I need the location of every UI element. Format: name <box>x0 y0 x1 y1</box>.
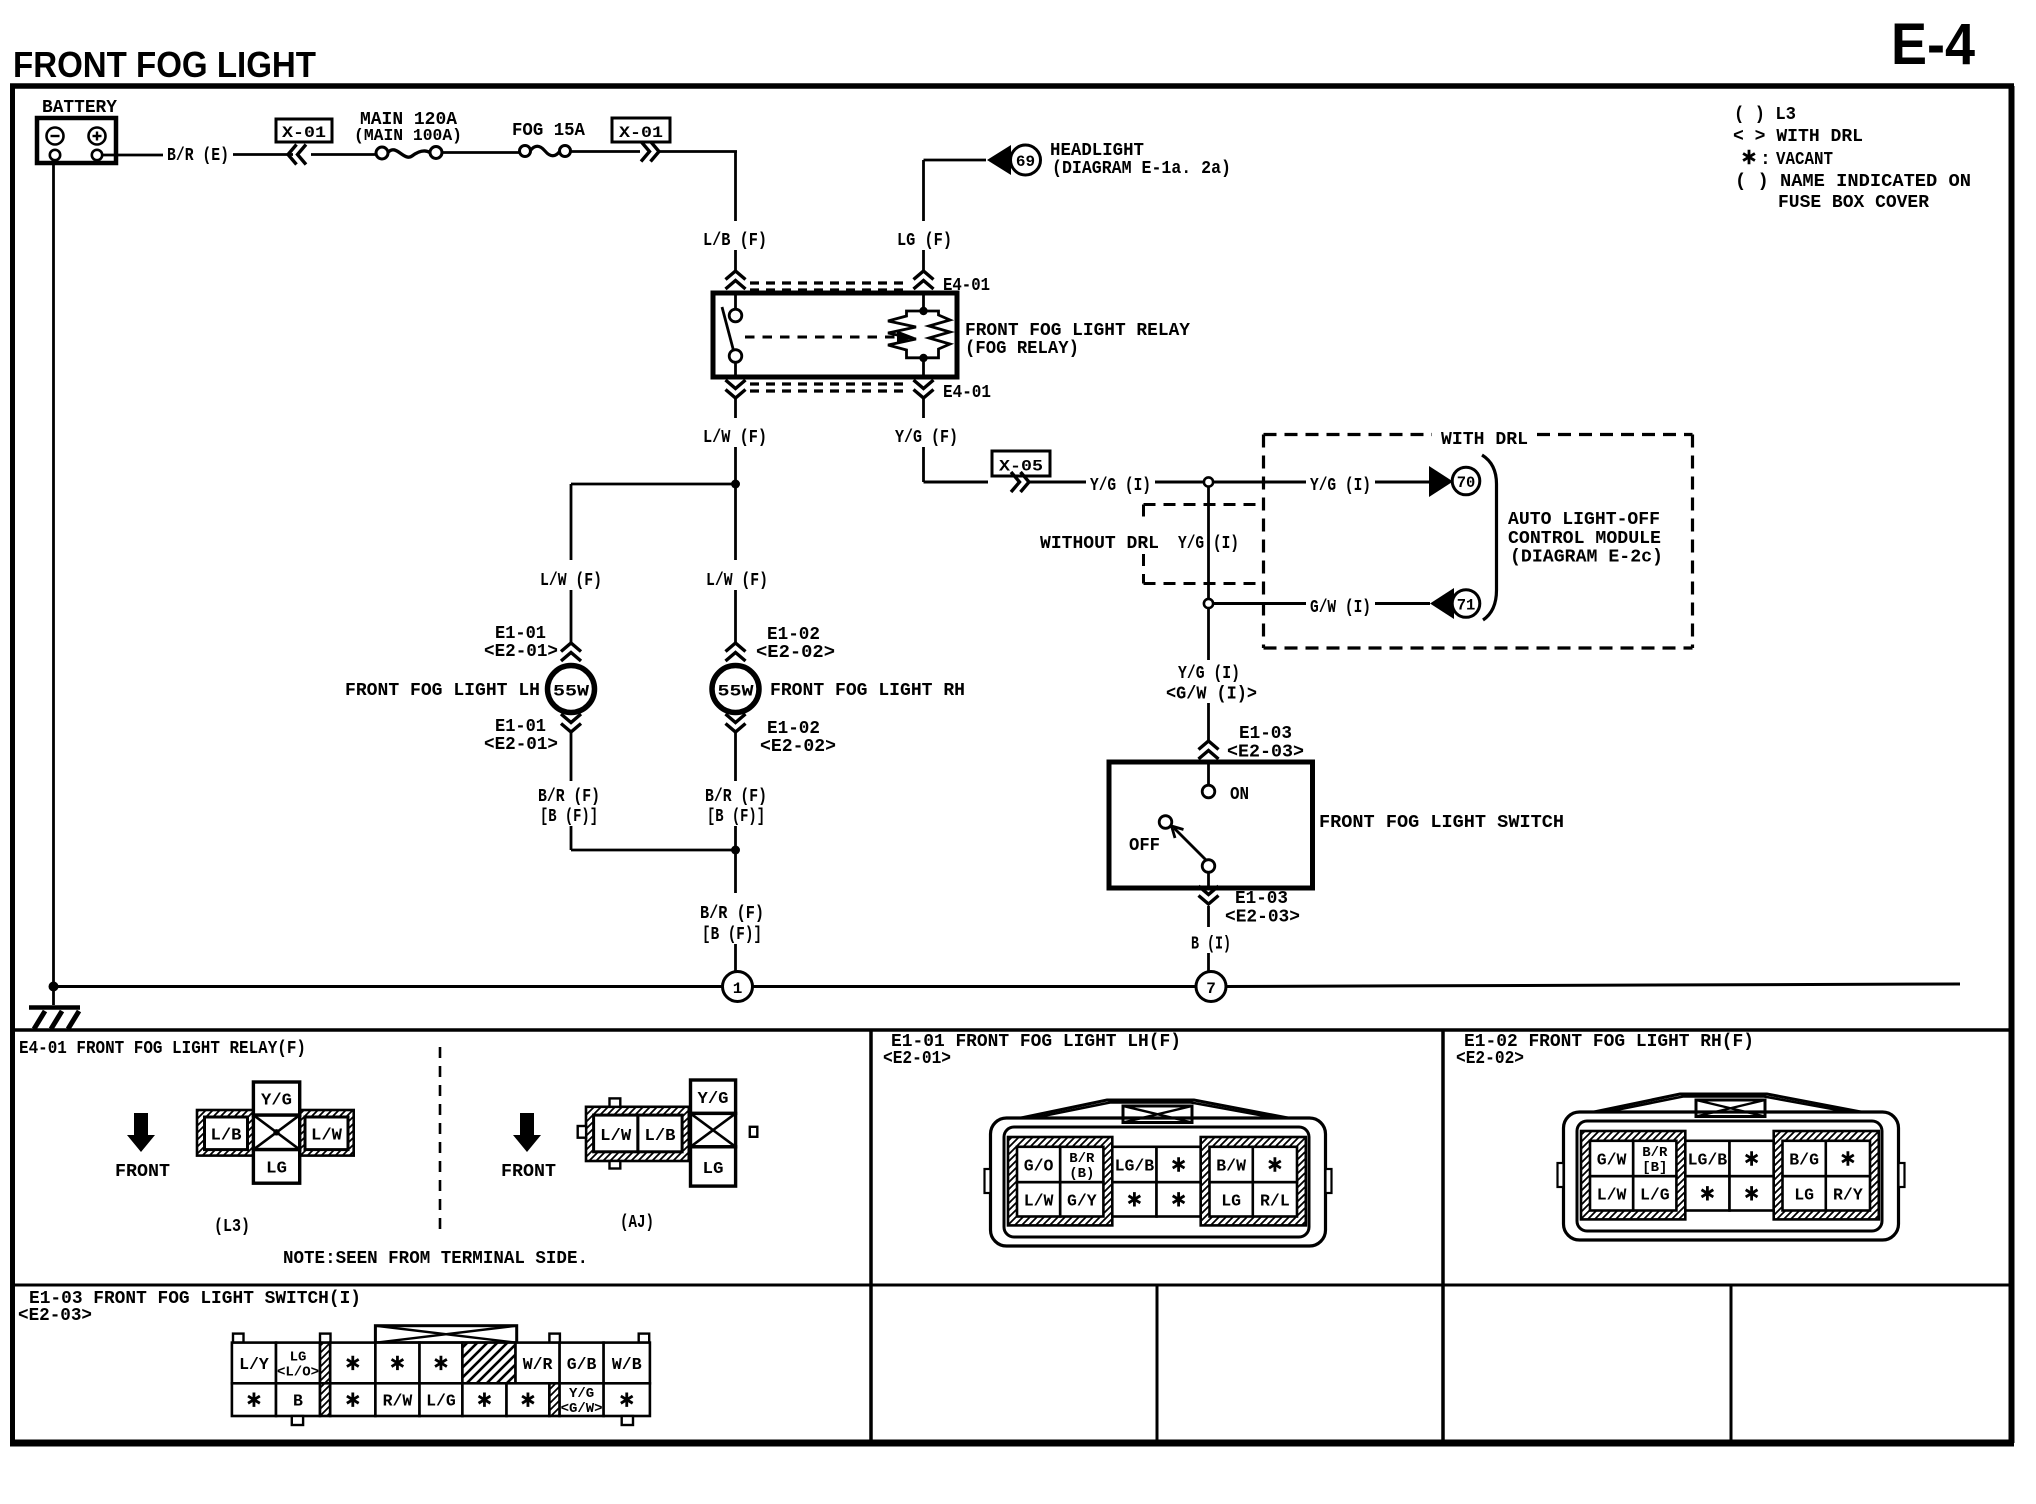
connector E1-02 (RH, bottom) <box>726 714 837 781</box>
wire label L/B(F) <box>703 231 767 272</box>
svg-text:LG: LG <box>1794 1185 1814 1204</box>
svg-text:FUSE BOX COVER: FUSE BOX COVER <box>1778 193 1929 213</box>
svg-text:<E2-01>: <E2-01> <box>883 1049 951 1069</box>
lamp FRONT FOG LIGHT RH 55W <box>712 663 965 713</box>
wire label L/W(F) RH <box>706 571 768 643</box>
svg-text:(FOG RELAY): (FOG RELAY) <box>965 339 1079 359</box>
svg-text:VACANT: VACANT <box>1776 150 1833 170</box>
legend *: VACANT <box>1743 150 1833 170</box>
svg-text:[B (F)]: [B (F)] <box>707 807 765 827</box>
battery <box>37 98 117 163</box>
svg-text:G/W (I): G/W (I) <box>1310 598 1371 618</box>
svg-text:Y/G (I): Y/G (I) <box>1090 476 1151 496</box>
svg-text:L/W: L/W <box>600 1126 631 1145</box>
connector E1-02 FRONT FOG LIGHT RH pinout <box>1456 1032 1754 1069</box>
wire B/R(E) battery feed <box>102 146 293 166</box>
svg-text:AUTO LIGHT-OFF: AUTO LIGHT-OFF <box>1508 510 1660 530</box>
connector E1-03 (switch, top) <box>1199 724 1305 763</box>
svg-text:W/B: W/B <box>612 1355 642 1374</box>
svg-text:OFF: OFF <box>1129 836 1160 856</box>
switch OFF contact <box>1129 816 1172 856</box>
node G/W(I) branch <box>1204 599 1213 608</box>
svg-text:G/O: G/O <box>1024 1157 1054 1176</box>
svg-text:55W: 55W <box>718 683 754 701</box>
battery negative wire <box>52 160 55 987</box>
legend ( ) NAME INDICATED ON FUSE BOX COVER <box>1735 172 1971 213</box>
svg-text:< > WITH DRL: < > WITH DRL <box>1733 127 1863 147</box>
fusible link MAIN 120A (MAIN 100A) <box>354 110 462 159</box>
wire LG(F) vertical <box>897 160 952 272</box>
svg-text:L/B: L/B <box>211 1126 242 1145</box>
svg-text:B/R (F): B/R (F) <box>538 787 600 807</box>
connector E1-03 (switch, bottom) <box>1199 872 1301 928</box>
svg-text:Y/G (I): Y/G (I) <box>1310 476 1371 496</box>
svg-text:[B]: [B] <box>1642 1160 1667 1176</box>
svg-text:(AJ): (AJ) <box>620 1213 654 1233</box>
wire Y/G(I) segment 2 to terminal 70 <box>1213 476 1429 496</box>
connector E1-03 switch pinout <box>232 1326 650 1425</box>
svg-text:1: 1 <box>733 980 743 998</box>
svg-text:E4-01: E4-01 <box>943 383 991 403</box>
svg-text:B/R (E): B/R (E) <box>167 146 229 166</box>
svg-text:<L/O>: <L/O> <box>277 1364 319 1380</box>
svg-text:71: 71 <box>1457 597 1476 615</box>
svg-text:LG: LG <box>703 1159 724 1178</box>
svg-text:L/W (F): L/W (F) <box>706 571 768 591</box>
svg-text:B/R (F): B/R (F) <box>700 904 764 924</box>
svg-text:X-01: X-01 <box>282 124 326 142</box>
lamp FRONT FOG LIGHT LH 55W <box>345 663 595 713</box>
svg-text:L/W: L/W <box>1597 1185 1627 1204</box>
connector E1-01 (LH, bottom) <box>484 714 581 781</box>
wire Y/G(I) <G/W(I)> to switch <box>1166 608 1257 741</box>
svg-text:R/Y: R/Y <box>1833 1185 1863 1204</box>
svg-text:HEADLIGHT: HEADLIGHT <box>1050 141 1144 161</box>
wire to connector X-01 right <box>570 150 640 153</box>
svg-text:R/W: R/W <box>383 1392 413 1411</box>
svg-text:E1-03: E1-03 <box>1239 724 1292 744</box>
L3 relay connector FRONT arrow <box>115 1113 170 1182</box>
svg-text:70: 70 <box>1457 474 1476 492</box>
svg-text:L/W (F): L/W (F) <box>540 571 602 591</box>
AJ relay connector pinout <box>578 1080 758 1186</box>
svg-text:B: B <box>293 1392 303 1411</box>
svg-text:Y/G: Y/G <box>698 1089 729 1108</box>
svg-text:R/L: R/L <box>1260 1191 1290 1210</box>
svg-text:<E2-03>: <E2-03> <box>1225 908 1300 928</box>
svg-text:BATTERY: BATTERY <box>42 98 117 118</box>
connector X-01 (fog relay side) <box>612 118 670 162</box>
svg-text:E1-02: E1-02 <box>767 719 820 739</box>
switch ON contact <box>1202 762 1249 805</box>
wire Y/G(I) segment 1 <box>1030 476 1204 496</box>
wire B/R(F) LH <box>538 787 600 850</box>
svg-text:55W: 55W <box>553 683 589 701</box>
svg-text:[B (F)]: [B (F)] <box>702 925 762 945</box>
wire L/W(F) from relay <box>703 399 767 484</box>
note dashed divider <box>439 1047 442 1235</box>
svg-text:L/G: L/G <box>1640 1185 1670 1204</box>
svg-text:<E2-01>: <E2-01> <box>484 735 558 755</box>
svg-text:FRONT: FRONT <box>115 1162 170 1182</box>
svg-text:(MAIN 100A): (MAIN 100A) <box>354 126 462 145</box>
svg-text:NOTE:SEEN FROM TERMINAL SIDE.: NOTE:SEEN FROM TERMINAL SIDE. <box>283 1249 588 1269</box>
svg-text:<G/W>: <G/W> <box>561 1401 603 1417</box>
svg-text:WITHOUT DRL: WITHOUT DRL <box>1040 534 1159 554</box>
svg-text:G/B: G/B <box>567 1355 597 1374</box>
connector E4-01 (relay, bottom) <box>726 380 992 403</box>
svg-text:Y/G: Y/G <box>569 1386 594 1402</box>
svg-text:LG (F): LG (F) <box>897 231 952 251</box>
svg-text:69: 69 <box>1016 153 1035 171</box>
node junction L/W to fog lights <box>571 480 740 561</box>
AJ relay connector FRONT arrow <box>501 1113 556 1182</box>
relay K1 FRONT FOG LIGHT RELAY box <box>713 293 957 377</box>
relay name label <box>965 321 1190 359</box>
ground symbol <box>29 987 80 1030</box>
svg-text:LG/B: LG/B <box>1115 1157 1155 1176</box>
svg-text:<E2-03>: <E2-03> <box>18 1306 92 1326</box>
svg-text:G/Y: G/Y <box>1067 1191 1097 1210</box>
svg-text:E1-01: E1-01 <box>495 717 546 737</box>
relay coil <box>888 293 950 377</box>
ground point 7 <box>1196 972 1226 1002</box>
dashed box WITHOUT DRL <box>1040 505 1262 584</box>
svg-text:L/Y: L/Y <box>239 1355 269 1374</box>
svg-text:L/W: L/W <box>1024 1191 1054 1210</box>
svg-text:Y/G (F): Y/G (F) <box>895 428 958 448</box>
label AUTO LIGHT-OFF CONTROL MODULE <box>1508 510 1663 568</box>
svg-text:(DIAGRAM E-2c): (DIAGRAM E-2c) <box>1510 548 1663 568</box>
svg-text:FOG 15A: FOG 15A <box>512 121 585 141</box>
svg-text:X-01: X-01 <box>619 124 663 142</box>
connector X-01 (battery side) <box>276 119 332 165</box>
relay switch contact <box>722 293 742 377</box>
svg-text:FRONT: FRONT <box>501 1162 556 1182</box>
module bracket <box>1482 455 1497 620</box>
svg-text:L/B: L/B <box>645 1126 676 1145</box>
wire B/R(F) to ground point 1 <box>700 904 764 972</box>
relay coil control dashed link <box>745 331 914 344</box>
svg-text:B/R: B/R <box>1642 1145 1668 1161</box>
connector E1-01 (LH, top) <box>484 624 581 662</box>
svg-text:L/W: L/W <box>311 1126 342 1145</box>
terminal arrow 71 <box>1430 588 1480 619</box>
wire to fusible link <box>311 153 378 156</box>
svg-text:FRONT FOG LIGHT RH: FRONT FOG LIGHT RH <box>770 681 965 701</box>
connector E1-01 FRONT FOG LIGHT LH pinout <box>883 1032 1181 1069</box>
svg-text:L/B (F): L/B (F) <box>703 231 767 251</box>
wire label L/W(F) LH <box>540 571 602 643</box>
node Y/G(I) branch <box>1204 477 1213 486</box>
svg-text:7: 7 <box>1206 980 1216 998</box>
svg-text:B/G: B/G <box>1789 1151 1819 1170</box>
svg-text:[B (F)]: [B (F)] <box>540 807 598 827</box>
svg-text:B/R (F): B/R (F) <box>705 787 767 807</box>
svg-text:E1-02: E1-02 <box>767 625 820 645</box>
svg-text:E-4: E-4 <box>1891 12 1975 77</box>
wire B/R(F) RH <box>705 787 767 850</box>
svg-text:FRONT FOG LIGHT RELAY: FRONT FOG LIGHT RELAY <box>965 321 1190 341</box>
svg-text:E4-01 FRONT FOG LIGHT RELAY(F): E4-01 FRONT FOG LIGHT RELAY(F) <box>19 1039 306 1059</box>
svg-text:FRONT FOG LIGHT: FRONT FOG LIGHT <box>13 44 316 85</box>
svg-text:L/G: L/G <box>426 1392 456 1411</box>
svg-text:<E2-01>: <E2-01> <box>484 642 558 662</box>
svg-text:Y/G: Y/G <box>261 1091 292 1110</box>
node ground junction <box>49 982 59 992</box>
ground point 1 <box>723 972 753 1002</box>
terminal arrow 70 <box>1429 466 1480 497</box>
svg-text:<E2-02>: <E2-02> <box>756 643 835 663</box>
wire B(I) <box>1191 935 1231 972</box>
svg-text:ON: ON <box>1230 785 1249 805</box>
L3 relay connector pinout <box>197 1082 354 1183</box>
ground bus wire <box>53 984 1960 987</box>
svg-text:E1-01: E1-01 <box>495 624 546 644</box>
wire to fuse <box>442 151 519 154</box>
svg-text:( ) NAME INDICATED ON: ( ) NAME INDICATED ON <box>1735 172 1971 192</box>
svg-text:(DIAGRAM E-1a. 2a): (DIAGRAM E-1a. 2a) <box>1052 159 1231 179</box>
svg-text:<G/W (I)>: <G/W (I)> <box>1166 685 1257 705</box>
svg-text:Y/G (I): Y/G (I) <box>1178 664 1240 684</box>
svg-text:<E2-02>: <E2-02> <box>1456 1049 1524 1069</box>
svg-text:B (I): B (I) <box>1191 935 1231 955</box>
svg-text:(B): (B) <box>1069 1166 1094 1182</box>
svg-text:L/W (F): L/W (F) <box>703 428 767 448</box>
svg-text:LG: LG <box>266 1159 287 1178</box>
wire Y/G(I) vertical <box>1207 487 1210 600</box>
switch S1 FRONT FOG LIGHT SWITCH box <box>1109 762 1313 888</box>
wire G/W(I) to terminal 71 <box>1213 598 1430 618</box>
connector E1-02 (RH, top) <box>726 625 836 663</box>
svg-text:CONTROL MODULE: CONTROL MODULE <box>1508 529 1661 549</box>
svg-text::: : <box>1760 150 1771 170</box>
svg-text:G/W: G/W <box>1597 1151 1627 1170</box>
fuse FOG 15A <box>512 121 585 157</box>
node junction B/R wires <box>571 846 740 894</box>
svg-text:<E2-02>: <E2-02> <box>760 737 836 757</box>
headlight circuit reference 69 <box>924 141 1232 179</box>
svg-text:LG: LG <box>1221 1191 1241 1210</box>
connector X-05 <box>992 451 1050 492</box>
svg-text:B/R: B/R <box>1069 1151 1095 1167</box>
connector E4-01 (relay, top) <box>726 271 991 296</box>
wire Y/G(F) corner to X-05 <box>924 481 989 484</box>
section header E1-03 FRONT FOG LIGHT SWITCH (I) <box>18 1289 361 1326</box>
svg-text:( ) L3: ( ) L3 <box>1734 105 1796 125</box>
wire Y/G(F) from relay <box>895 399 958 482</box>
svg-text:LG/B: LG/B <box>1688 1151 1728 1170</box>
dashed box WITH DRL <box>1264 430 1693 648</box>
svg-text:WITH DRL: WITH DRL <box>1441 430 1528 450</box>
svg-text:LG: LG <box>290 1349 307 1365</box>
wire to relay (corner) <box>660 152 737 222</box>
svg-text:E1-03: E1-03 <box>1235 889 1288 909</box>
svg-text:FRONT FOG LIGHT LH: FRONT FOG LIGHT LH <box>345 681 540 701</box>
switch blade <box>1172 826 1215 872</box>
svg-text:W/R: W/R <box>523 1355 553 1374</box>
svg-text:FRONT FOG LIGHT SWITCH: FRONT FOG LIGHT SWITCH <box>1319 813 1564 833</box>
svg-text:B/W: B/W <box>1216 1157 1246 1176</box>
svg-text:(L3): (L3) <box>214 1217 250 1237</box>
